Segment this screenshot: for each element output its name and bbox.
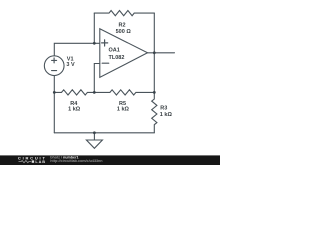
wire output down to R3 node: [153, 53, 155, 93]
wire feedback top loop left vertical: [93, 13, 95, 43]
resistor R4: [54, 90, 94, 95]
wire R2 right down to output: [153, 13, 155, 53]
node R5/R3 junction: [153, 91, 156, 94]
svg-text:1 kΩ: 1 kΩ: [68, 106, 81, 112]
svg-text:OA1: OA1: [109, 48, 120, 54]
svg-text:http://circuitlab.com/c/u433nn: http://circuitlab.com/c/u433nn: [50, 159, 103, 163]
svg-text:500 Ω: 500 Ω: [116, 29, 132, 35]
node feedback junction: [93, 91, 96, 94]
ground: [86, 133, 102, 149]
watermark bar: [0, 155, 220, 165]
V1 plus mark: [52, 58, 57, 63]
node output junction: [153, 51, 156, 54]
V1 minus mark: [52, 70, 57, 72]
op-amp OA1: [100, 29, 148, 78]
voltage source V1: [44, 56, 64, 76]
svg-text:LAB: LAB: [35, 160, 46, 164]
wire V1 bottom down left rail: [53, 76, 55, 133]
wire -input stub and vertical: [94, 64, 100, 93]
node +input junction: [93, 42, 96, 45]
svg-text:TL082: TL082: [109, 55, 125, 61]
wire output: [148, 52, 175, 54]
opamp plus mark: [102, 40, 108, 46]
svg-text:R2: R2: [118, 23, 125, 29]
opamp minus mark: [102, 62, 109, 64]
watermark logo LAB: [19, 160, 46, 164]
svg-text:3 V: 3 V: [66, 62, 75, 68]
wire bottom rail: [54, 132, 154, 134]
resistor R5: [94, 90, 154, 95]
wire V1 top to +input: [54, 43, 100, 56]
resistor R3: [152, 92, 157, 132]
svg-text:1 kΩ: 1 kΩ: [160, 112, 173, 118]
svg-text:R3: R3: [160, 106, 167, 112]
node ground junction: [93, 131, 96, 134]
node V1/R4 junction: [53, 91, 56, 94]
resistor R2: [94, 11, 154, 16]
svg-text:1 kΩ: 1 kΩ: [117, 106, 130, 112]
